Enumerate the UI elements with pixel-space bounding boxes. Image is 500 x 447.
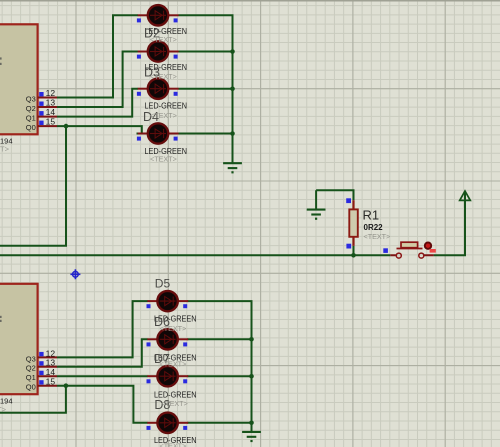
svg-text:R1: R1 (363, 208, 380, 223)
svg-text:<TEXT>: <TEXT> (150, 154, 177, 163)
svg-text:T>: T> (0, 144, 10, 153)
svg-text:<TEXT>: <TEXT> (150, 35, 177, 44)
svg-text:194: 194 (0, 396, 13, 405)
svg-text:13: 13 (46, 358, 56, 368)
svg-text:14: 14 (46, 107, 56, 117)
svg-text:Q0: Q0 (26, 383, 36, 392)
svg-text:15: 15 (46, 117, 56, 127)
svg-text:14: 14 (46, 367, 56, 377)
svg-text:<TEXT>: <TEXT> (150, 72, 177, 81)
svg-text:15: 15 (46, 377, 56, 387)
svg-text:<TEXT>: <TEXT> (160, 441, 187, 447)
svg-text:<TEXT>: <TEXT> (161, 399, 188, 408)
svg-text:13: 13 (46, 98, 56, 108)
svg-text:Q3: Q3 (26, 94, 36, 103)
svg-text:T>: T> (0, 405, 7, 414)
svg-text:<TEXT>: <TEXT> (150, 111, 177, 120)
svg-text:Q2: Q2 (26, 364, 36, 373)
svg-text:<TEXT>: <TEXT> (160, 324, 187, 333)
svg-text:Q1: Q1 (26, 114, 36, 123)
svg-text:Q2: Q2 (26, 104, 36, 113)
svg-text:Q3: Q3 (26, 354, 36, 363)
svg-text:<TEXT>: <TEXT> (160, 360, 187, 369)
svg-text:Q1: Q1 (26, 373, 36, 382)
svg-text:D5: D5 (155, 276, 171, 290)
svg-text:0R22: 0R22 (364, 223, 384, 232)
svg-text:<TEXT>: <TEXT> (364, 232, 391, 241)
svg-text:Q0: Q0 (26, 123, 36, 132)
svg-text:12: 12 (46, 88, 56, 98)
